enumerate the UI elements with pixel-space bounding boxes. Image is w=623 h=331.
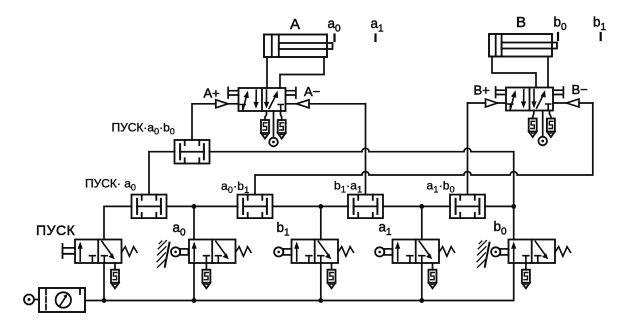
node a1 supply junction [419,298,424,303]
valve b0 (3/2 roller, actuated) [509,240,571,264]
AND valve PUSK.a0 [132,195,167,219]
wall a0 [157,241,169,268]
valve b1 (3/2 roller) [292,240,354,264]
wire cylinder B left port to valve B [492,57,536,88]
wire B- command line (h2) [255,103,593,195]
AND valve a1.b0 [450,195,485,219]
wire PUSK supply drop [103,263,105,301]
wire row line PUSK.a0 to a0.b1 [167,205,238,207]
source for valve B [538,137,547,146]
node b1 supply junction [318,298,323,303]
pilot A- triangle [297,100,310,108]
wire cylinder A left port to valve A [266,57,268,88]
node a1 position tick [374,35,376,42]
wire PUSK.a0.b0 output to A+ [191,104,193,140]
wire b1 output up [320,206,322,239]
AND valve b1.a1 [348,195,383,219]
node b0 junction [511,204,516,209]
wire PUSK valve output to PUSK.a0 [104,206,132,239]
svg-text:A−: A− [304,84,320,99]
valve a1 (3/2 roller) [393,240,455,264]
wire row line b1.a1 to a1.b0 [383,205,450,207]
source for valve A [269,138,278,147]
node a0 supply junction [192,298,197,303]
svg-text:A: A [290,16,300,33]
wire A- command vertical [365,104,367,195]
AND valve PUSK.a0.b0 [175,140,210,164]
svg-text:ПУСК·a0·b0: ПУСК·a0·b0 [112,121,175,137]
silencer valve B left [529,119,537,138]
svg-text:B: B [516,14,526,31]
roller b1 [274,247,291,256]
wire supply bus [85,263,514,301]
svg-text:A+: A+ [204,86,220,101]
wire cylinder B right port to valve B [547,57,549,88]
wire a0 output up [193,206,195,239]
wire b0 signal vertical [513,152,515,240]
source main [24,295,34,305]
valve PUSK (3/2 pushbutton) [75,240,137,264]
roller b0 [491,247,508,256]
wire valve A supply [273,111,275,138]
valve A (5/2 directional valve) [228,88,296,112]
wire row line a1.b0 to b0 line [485,205,514,207]
node a0 junction [192,204,197,209]
wire A+ pilot [192,103,238,105]
wire B+ pilot [468,102,507,104]
wire a1 supply drop [421,263,423,301]
node PUSK supply junction [102,298,107,303]
valve a0 (3/2 roller, actuated) [189,240,251,264]
wire cylinder A right port to valve A [280,57,324,88]
svg-text:ПУСК· a0: ПУСК· a0 [85,177,136,193]
wire b1 supply drop [320,263,322,301]
wire valve B supply [542,111,544,137]
silencer b1 [331,263,333,270]
pushbutton actuator [63,244,76,258]
wire A- pilot [286,103,366,105]
pilot A+ triangle [216,100,228,108]
cylinder B [489,34,557,57]
air supply unit [39,288,85,312]
node a0 position tick [333,35,335,42]
wire a0 supply drop [193,263,195,301]
node a1 junction [419,204,424,209]
svg-text:B−: B− [572,82,588,97]
silencer a1 [432,263,434,270]
wire a1 output up [421,206,423,239]
wire B- pilot [553,102,593,104]
wire PUSK.a0 output to PUSK.a0.b0 left input [149,152,175,195]
roller a0 [171,247,188,256]
wire row line a0.b1 to b1.a1 [273,205,349,207]
wire valve B exhaust stems [533,111,551,119]
svg-text:ПУСК: ПУСК [36,222,76,238]
wire source to unit [34,299,39,301]
node b1 junction [318,204,323,209]
valve B (5/2 directional valve) [496,87,564,111]
node b0 position tick [557,33,559,40]
roller a1 [375,247,392,256]
silencer valve A left [261,120,269,139]
AND valve a0.b1 [238,195,273,219]
wire valve A exhaust stems [265,111,282,120]
wire b0 signal line (h1) [210,148,514,152]
wire B+ command vertical [467,103,469,195]
silencer valve B right [547,119,555,138]
silencer a0 [205,263,207,270]
silencer b0 [525,263,527,270]
cylinder A [264,35,333,58]
svg-text:B+: B+ [474,83,490,98]
silencer valve A right [278,120,286,139]
node b1 position tick [600,33,602,40]
silencer PUSK [114,263,116,270]
wall b0 [477,241,489,268]
pilot B- triangle [567,99,580,107]
pilot B+ triangle [486,99,498,107]
